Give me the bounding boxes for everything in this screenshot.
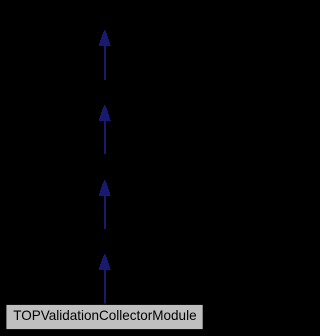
inheritance arrow 3 head	[99, 180, 111, 196]
svg-text:TOPValidationCollectorModule: TOPValidationCollectorModule	[13, 307, 197, 323]
inheritance arrow 4 shaft	[104, 270, 106, 304]
inheritance arrow 2 shaft	[104, 121, 106, 154]
inheritance arrow 2 head	[99, 105, 111, 121]
node box TOPValidationCollectorModule	[6, 304, 204, 330]
inheritance arrow 1 head	[99, 30, 111, 46]
inheritance arrow 1 shaft	[104, 46, 106, 80]
inheritance arrow 4 head	[99, 254, 111, 270]
inheritance arrow 3 shaft	[104, 196, 106, 229]
